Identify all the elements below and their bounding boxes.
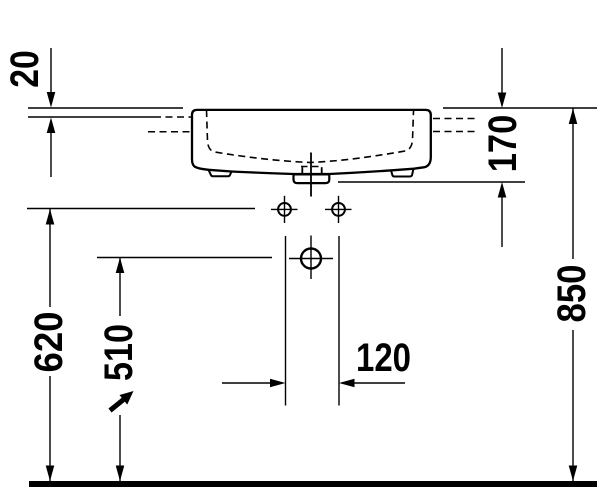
countertop bottom line left segment [28,116,154,118]
left supply hole [278,203,291,216]
washbasin inner bowl hidden outline (dashed) [207,110,414,163]
floor line [29,481,597,487]
drain hole top dashed edge [301,166,323,168]
120 extension line left [285,236,287,406]
drain outlet level line (top of 510) [97,257,272,259]
120 extension line right [338,236,340,406]
drain hole right side [321,167,323,174]
hidden edge dashed left upper [154,116,191,118]
hidden edge dashed right upper [433,118,477,120]
mounting level line (bottom of 170) [338,181,525,183]
countertop top line left segment [28,107,183,109]
svg-text:120: 120 [356,336,411,380]
drain center line [310,153,312,197]
right supply hole crosshair [325,208,352,210]
washbasin outer outline [192,110,431,174]
countertop top line right segment [443,107,597,109]
drain hole left side [301,167,303,174]
left foot [209,170,232,177]
right foot [391,169,414,177]
hidden edge dashed right lower [433,131,477,133]
drain outlet crosshair [289,258,333,260]
dimension 620 line [49,209,51,307]
dimension 850 line [572,109,574,260]
left supply hole crosshair [271,208,298,210]
dimension 20 lower arrow [50,131,52,177]
svg-text:850: 850 [550,265,594,323]
drain fitting rectangle [294,174,330,183]
510 reference arrow (bent) [110,400,124,411]
svg-text:620: 620 [27,312,71,373]
dimension 170 upper arrow [501,48,503,94]
dimension 170 lower arrow [501,196,503,247]
dimension 20 upper arrow [50,48,52,94]
dimension 120 left arrow [222,382,271,384]
svg-text:170: 170 [481,115,525,173]
svg-text:510: 510 [97,324,141,381]
right supply hole [332,203,345,216]
supply holes level line (top of 620) [27,208,255,210]
dimension 120 right arrow [354,382,405,384]
hidden edge dashed left lower [148,131,191,133]
svg-text:20: 20 [3,50,47,88]
dimension 510 line [119,258,121,317]
drain outlet circle [301,249,321,269]
